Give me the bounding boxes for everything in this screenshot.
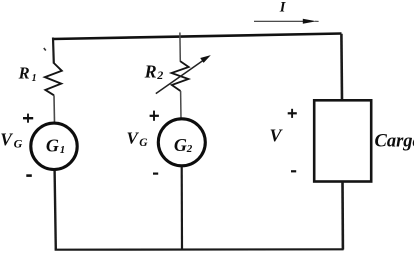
wire bottom rail <box>55 248 344 251</box>
plus mark G2 <box>150 111 159 121</box>
wire Carga to bottom rail <box>341 182 344 250</box>
svg-text:I: I <box>279 0 287 16</box>
wire top rail <box>53 34 342 40</box>
minus mark V <box>291 170 296 172</box>
wire R2 branch from top rail <box>179 33 181 62</box>
svg-text:2: 2 <box>186 143 193 155</box>
minus mark G1 <box>26 174 32 177</box>
svg-text:V: V <box>270 126 284 146</box>
svg-text:G: G <box>174 135 187 155</box>
wire G2 to bottom rail <box>181 167 184 250</box>
minus mark G2 <box>153 173 158 175</box>
wire top-right vertical <box>340 34 343 100</box>
svg-text:G: G <box>14 136 23 150</box>
svg-text:V: V <box>127 129 140 148</box>
wire G1 to bottom rail <box>55 171 56 250</box>
wire R1 to G1 <box>53 95 56 122</box>
svg-text:Carga: Carga <box>375 132 414 152</box>
svg-text:V: V <box>0 129 13 149</box>
svg-text:G: G <box>139 137 148 149</box>
plus mark G1 <box>23 114 33 123</box>
wire top-left vertical segment <box>52 38 55 64</box>
svg-text:G: G <box>46 135 59 155</box>
generator G2 circle <box>158 119 205 166</box>
generator G1 circle <box>31 123 77 169</box>
svg-text:R: R <box>144 61 157 81</box>
arrow through R2 (variable resistor) <box>156 59 206 94</box>
svg-text:2: 2 <box>156 68 163 82</box>
resistor R1 zigzag <box>45 63 62 95</box>
svg-text:1: 1 <box>32 73 37 84</box>
stray tick mark (scan artifact) <box>44 48 46 51</box>
load Carga rectangle <box>314 100 371 181</box>
plus mark V <box>288 109 297 118</box>
svg-text:R: R <box>18 64 30 83</box>
resistor R2 zigzag (variable) <box>172 61 189 91</box>
wire R2 to G2 <box>180 91 182 119</box>
svg-text:1: 1 <box>60 144 66 156</box>
current arrow I <box>254 20 306 22</box>
